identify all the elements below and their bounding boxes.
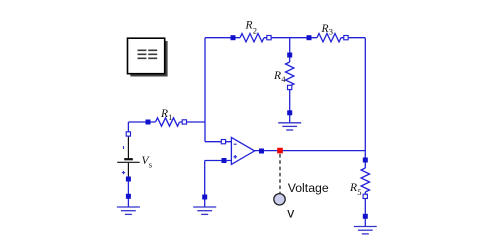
svg-text:R: R [160, 108, 168, 120]
label Vs [142, 155, 153, 169]
wire R5 to ground [364, 192, 366, 227]
resistor R4 [286, 62, 294, 86]
svg-text:R: R [349, 182, 357, 194]
resistor R3 [317, 34, 341, 42]
terminal square R2 left [231, 35, 236, 40]
terminal square ground R5 [363, 214, 368, 219]
resistor R2 [240, 34, 264, 42]
probe dashed lead [279, 154, 281, 193]
wire op-amp plus input [205, 160, 232, 162]
label R5 [349, 182, 362, 197]
wire plus input to ground [204, 161, 206, 208]
svg-text:1: 1 [168, 112, 172, 122]
wire op-amp minus input [205, 141, 232, 143]
open terminal R5 bottom [363, 194, 367, 198]
svg-text:4: 4 [281, 74, 286, 84]
terminal square battery bottom [126, 177, 131, 182]
battery Vs body [117, 136, 140, 177]
svg-text:3: 3 [329, 27, 333, 37]
label R1 [160, 108, 173, 122]
wire Vs bottom to ground [127, 177, 129, 207]
wire left vertical feedback [204, 38, 206, 142]
battery minus tick [123, 146, 125, 149]
resistor R1 [156, 118, 180, 126]
ground (R5) [354, 227, 377, 234]
svg-text:s: s [149, 159, 152, 169]
resistor R5 [361, 168, 369, 192]
ground (op-amp plus input) [193, 207, 216, 214]
battery plus tick [122, 171, 125, 174]
svg-text:R: R [245, 20, 253, 32]
wire right vertical [364, 38, 366, 168]
svg-text:R: R [321, 23, 329, 35]
voltmeter probe circle [274, 194, 285, 205]
svg-text:R: R [273, 70, 281, 82]
terminal square ground op-amp [202, 195, 207, 200]
svg-text:2: 2 [253, 26, 257, 36]
terminal square ground R4 [287, 110, 292, 115]
open terminal R4 bottom [288, 85, 292, 89]
terminal square ground Vs [126, 194, 131, 199]
wire R2 to R3 [264, 37, 317, 39]
terminal square R1 left [146, 120, 151, 125]
terminal square R3 left [307, 35, 312, 40]
node probe red square [277, 148, 283, 154]
svg-text:Voltage: Voltage [288, 181, 329, 195]
open terminal R1 right [182, 120, 186, 124]
ground (R4) [278, 123, 301, 130]
terminal square op-amp output [259, 149, 264, 154]
open terminal battery top [126, 132, 130, 136]
wire Vs top lead [127, 122, 129, 136]
wire R4 bottom to ground [289, 86, 291, 123]
list icon box [128, 38, 165, 73]
label R3 [321, 23, 334, 37]
op-amp U1 [231, 137, 254, 164]
svg-text:v: v [287, 205, 294, 221]
wire top-left to R2 [205, 37, 240, 39]
open terminal op-amp minus [221, 140, 225, 144]
wire R4 top [289, 38, 291, 62]
list icon shadow [130, 41, 167, 77]
ground (Vs) [117, 207, 140, 214]
label R4 [273, 70, 286, 84]
terminal square R5 top [363, 158, 368, 163]
list icon dashes [138, 50, 158, 58]
open terminal R3 right [344, 36, 348, 40]
wire R1 to feedback node [180, 121, 206, 123]
wire Vs to R1 [128, 121, 155, 123]
open terminal R2 right [267, 36, 271, 40]
terminal square op-amp plus [222, 158, 227, 163]
terminal square R4 top [287, 53, 292, 58]
wire op-amp output [255, 150, 366, 152]
label R2 [245, 20, 258, 36]
wire R3 to top-right corner [341, 37, 365, 39]
svg-text:5: 5 [357, 187, 361, 197]
